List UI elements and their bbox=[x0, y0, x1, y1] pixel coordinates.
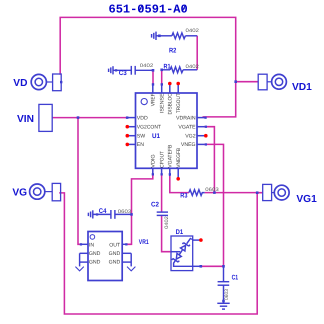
svg-text:VIN: VIN bbox=[17, 114, 34, 125]
svg-text:OUT: OUT bbox=[109, 243, 121, 249]
svg-text:VDRAIN: VDRAIN bbox=[176, 116, 196, 122]
svg-text:651-0591-A0: 651-0591-A0 bbox=[109, 3, 188, 17]
svg-text:R3: R3 bbox=[180, 192, 187, 199]
svg-text:0402: 0402 bbox=[140, 63, 154, 69]
svg-text:VNEGFB: VNEGFB bbox=[176, 147, 182, 167]
svg-text:VREF: VREF bbox=[151, 93, 157, 106]
svg-text:C4: C4 bbox=[99, 208, 107, 215]
svg-text:SW: SW bbox=[137, 134, 145, 140]
svg-text:VDIG: VDIG bbox=[151, 154, 157, 167]
svg-text:GND: GND bbox=[109, 260, 121, 266]
svg-text:CPOUT: CPOUT bbox=[159, 150, 165, 167]
svg-text:GND: GND bbox=[89, 260, 101, 266]
svg-text:VGATEFB: VGATEFB bbox=[168, 144, 174, 168]
svg-text:DISBLOC: DISBLOC bbox=[168, 93, 174, 115]
svg-text:ISENSE: ISENSE bbox=[159, 93, 165, 113]
svg-text:VG1: VG1 bbox=[296, 194, 317, 205]
svg-text:0603: 0603 bbox=[224, 289, 230, 300]
svg-text:C1: C1 bbox=[232, 274, 239, 281]
svg-text:VGATE: VGATE bbox=[178, 125, 196, 131]
svg-text:VG2CONT: VG2CONT bbox=[137, 125, 162, 131]
svg-text:VG2: VG2 bbox=[185, 134, 195, 140]
svg-text:EN: EN bbox=[137, 142, 144, 148]
svg-text:C2: C2 bbox=[151, 202, 159, 209]
svg-text:TRGOUT: TRGOUT bbox=[176, 93, 182, 114]
svg-text:VG: VG bbox=[12, 187, 27, 198]
svg-text:D1: D1 bbox=[176, 229, 184, 236]
svg-text:C3: C3 bbox=[119, 70, 127, 77]
svg-text:0402: 0402 bbox=[186, 28, 200, 34]
svg-text:VDD: VDD bbox=[137, 116, 148, 122]
svg-text:VR1: VR1 bbox=[139, 239, 149, 246]
svg-text:R2: R2 bbox=[169, 47, 177, 54]
svg-text:GND: GND bbox=[109, 251, 121, 257]
svg-text:0603: 0603 bbox=[118, 209, 132, 215]
svg-text:VNEG: VNEG bbox=[181, 142, 196, 148]
svg-text:0402: 0402 bbox=[164, 216, 170, 229]
svg-text:VD: VD bbox=[13, 78, 27, 89]
svg-text:VD1: VD1 bbox=[292, 82, 312, 93]
svg-text:GND: GND bbox=[89, 251, 101, 257]
svg-text:0402: 0402 bbox=[186, 64, 200, 70]
svg-text:IN: IN bbox=[89, 243, 94, 249]
svg-text:0603: 0603 bbox=[205, 187, 219, 193]
svg-text:U1: U1 bbox=[152, 133, 160, 140]
svg-text:R1: R1 bbox=[164, 64, 171, 71]
